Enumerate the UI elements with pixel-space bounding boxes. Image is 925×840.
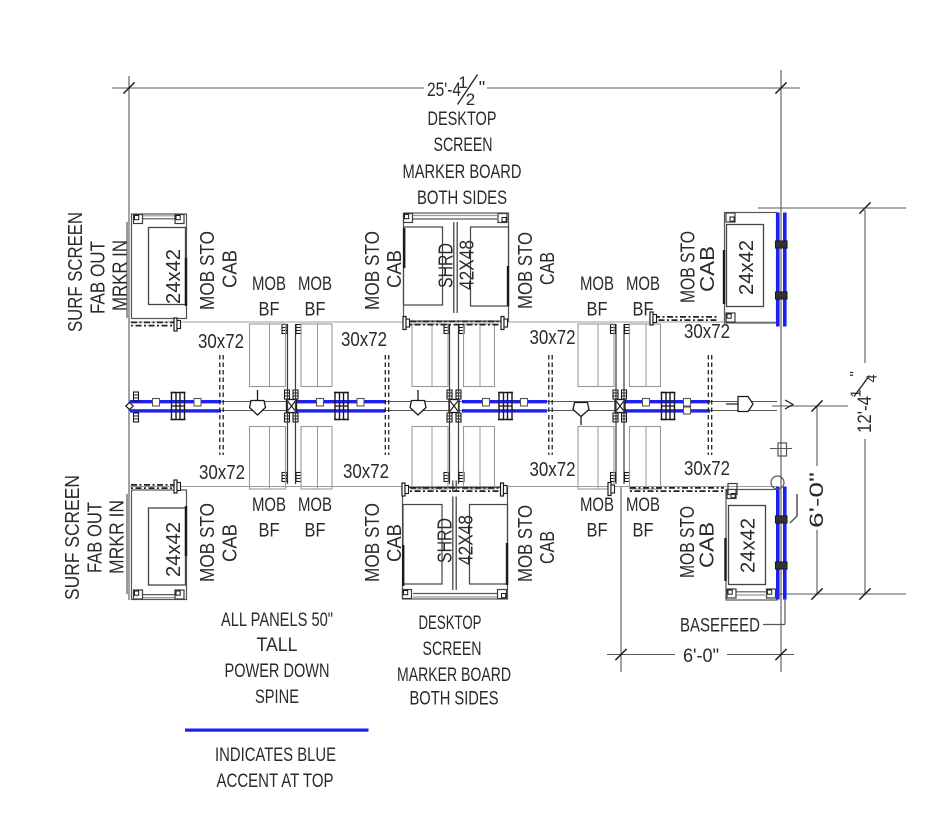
svg-text:2: 2 [466,90,475,109]
pedestal lower 3 [412,427,448,490]
bottom-right blue tick B [776,562,788,569]
junction hatch pair 2 [447,390,452,399]
bottom-center dash-dot end connector B [501,483,504,496]
blue accent spine segment 3 lower [462,409,547,412]
svg-text:CAB: CAB [384,524,406,562]
blue accent spine segment 3 upper [462,400,547,403]
svg-text:SCREEN: SCREEN [423,638,482,660]
svg-text:INDICATES BLUE: INDICATES BLUE [215,744,336,766]
panel connector C3 [499,393,504,420]
svg-text:MRKR IN: MRKR IN [107,500,129,574]
power pole P2 [410,401,426,416]
divider panel right cluster [615,324,617,484]
right dim helper line bottom [770,593,906,595]
tick 6ft-bottom right [775,649,786,660]
spine junction X1 [287,400,297,413]
svg-text:POWER DOWN: POWER DOWN [225,660,330,682]
spine gray connector e [483,399,490,407]
svg-text:SURF SCREEN: SURF SCREEN [62,475,84,600]
pedestal upper 2 [301,324,332,387]
right dim helper line mid [772,405,848,407]
svg-text:30x72: 30x72 [684,458,730,480]
svg-text:SURF SCREEN: SURF SCREEN [65,212,87,332]
blue accent spine segment 1 lower [130,409,221,412]
top-center desk right [471,227,509,306]
top-right corner square B [726,313,735,322]
junction hatch pair 3 [613,390,618,399]
junction hatch pair 1 [285,390,290,399]
dimension extension line right [780,70,782,672]
svg-text:MOB STO: MOB STO [362,231,384,310]
spine gray connector b [194,399,201,407]
desk screen dashed 4 [707,355,709,455]
top-center corner square A [404,214,413,223]
svg-text:30x72: 30x72 [199,462,245,484]
bottom-center corner square B [498,590,507,599]
svg-text:24x42: 24x42 [738,518,760,573]
bottom-center corner square A [403,590,412,599]
top-left desk 24x42 [149,228,186,305]
upper row boundary line [129,321,777,323]
svg-text:12'-4: 12'-4 [855,396,876,433]
svg-text:6'-0": 6'-0" [683,646,719,667]
top-right markerboard blue line B [783,213,787,327]
divider hatch bottom left [282,473,287,482]
spine gray connector c [317,399,324,407]
bottom-right markerboard blue line B [783,487,787,600]
spine gray connector f [521,399,528,407]
bottom-center dark edge left [402,545,404,586]
top-center dash-dot end connector A [403,317,406,330]
svg-text:MOB STO: MOB STO [362,503,384,582]
svg-text:6'-0": 6'-0" [807,472,828,528]
top dimension line 25ft [112,87,424,89]
divider panel left cluster [287,324,289,484]
svg-text:24x42: 24x42 [163,249,185,304]
svg-text:25'-4: 25'-4 [427,80,461,101]
bottom-left corner square A [134,590,143,599]
bottom-right markerboard band [736,591,768,593]
svg-text:ALL PANELS 50": ALL PANELS 50" [221,609,333,631]
top-left surf screen double line [126,222,128,318]
right wall small rect [778,443,787,456]
pedestal upper 3 [412,324,448,387]
svg-text:CAB: CAB [537,252,559,285]
bottom-center desk left [403,505,442,585]
top-right desk 24x42 [727,225,764,307]
svg-text:FAB OUT: FAB OUT [88,241,110,314]
svg-text:MOB: MOB [626,494,660,516]
panel connector C4 [662,393,667,420]
top-center corner square B [498,214,507,223]
top-center shared block outline [404,213,509,321]
panel connector C2 [335,393,340,420]
bottom-left desk 24x42 [149,508,186,585]
tick top-right [775,82,786,93]
divider panel center cluster [449,324,451,484]
spine panel top edge [129,401,777,403]
pedestal lower 1 [250,427,286,490]
bottom dimension line 6'-0" [607,654,675,656]
svg-text:MRKR IN: MRKR IN [110,240,132,311]
svg-text:MOB: MOB [298,494,332,516]
top-right corner square A [726,213,735,222]
bottom-right corner square B [727,589,736,598]
top-center markerboard band [413,215,497,217]
pedestal upper 4 [464,324,495,387]
pedestal lower 4 [464,427,495,490]
svg-text:24x42: 24x42 [163,522,185,577]
bottom-left corner square B [175,590,184,599]
spine left end node [126,403,133,410]
svg-text:SPINE: SPINE [255,686,299,708]
bottom-center markerboard band [413,593,497,595]
bottom-right markerboard blue line A [776,487,780,600]
svg-text:SHRD: SHRD [435,518,457,563]
top-right blue tick B [776,292,788,299]
svg-text:MOB: MOB [252,273,286,295]
divider hatch top center [444,325,449,334]
top-right blue tick A [776,241,788,248]
tick 6ft-right top [811,400,822,411]
svg-text:MOB STO: MOB STO [197,503,219,582]
svg-text:MOB: MOB [252,494,286,516]
svg-text:BF: BF [633,520,654,542]
svg-text:30x72: 30x72 [530,459,576,481]
svg-text:DESKTOP: DESKTOP [428,108,497,130]
blue accent spine segment 4 upper [622,400,710,403]
bottom-right corner square C [767,589,776,598]
pedestal upper 6 [630,324,661,387]
svg-text:BF: BF [587,299,608,321]
tick 12ft bottom [859,588,870,599]
svg-text:BOTH SIDES: BOTH SIDES [417,187,507,209]
bottom-right corner square A [727,490,736,499]
top-right desk dark edge [723,250,725,304]
top-left dash-dot panel [131,321,176,323]
top-right storage block outline [725,213,777,324]
top-right dash-dot end connector [650,312,653,325]
svg-text:BF: BF [305,520,326,542]
svg-text:CAB: CAB [384,250,406,288]
power pole P3 [573,403,589,417]
svg-text:SHRD: SHRD [436,243,458,288]
panel connector C1 [172,393,177,420]
svg-text:CAB: CAB [537,531,559,564]
spine junction X3 [615,400,625,413]
right dim helper line top [758,207,906,209]
svg-text:MARKER BOARD: MARKER BOARD [397,664,511,686]
svg-text:CAB: CAB [220,250,242,288]
top-left markerboard band [140,215,178,217]
svg-text:BF: BF [259,299,280,321]
spine gray connector h [684,399,691,407]
bottom-center desk right [470,505,508,585]
top-center divider [453,222,455,313]
pedestal lower 5 [578,427,614,490]
bottom-center dark edge right [506,543,508,585]
svg-text:24x42: 24x42 [736,240,758,295]
svg-text:1: 1 [849,389,865,397]
right wall circle node [771,476,784,489]
svg-text:30x72: 30x72 [530,327,576,349]
pedestal upper 5 [578,324,614,387]
right wall hook [790,494,797,523]
blue accent spine segment 1 upper [130,400,221,403]
bottom-left storage block outline [132,490,187,600]
desk screen dashed 2 [384,355,386,455]
bottom-left dash-dot panel [131,484,176,486]
bottom-center shared block outline [403,488,508,600]
svg-text:FAB OUT: FAB OUT [85,502,107,573]
bottom-left dash-dot end connector [174,480,177,493]
blue accent spine segment 4 lower [622,409,710,412]
spine gray connector a [153,399,160,407]
tick 12ft top [859,202,870,213]
desk screen dashed 3 [548,355,550,455]
bottom-left desk dark edge [185,506,187,556]
svg-text:CAB: CAB [220,524,242,562]
power pole P1 [250,401,266,416]
svg-text:DESKTOP: DESKTOP [419,612,482,634]
svg-text:ACCENT AT TOP: ACCENT AT TOP [217,770,334,792]
svg-text:MOB STO: MOB STO [515,232,537,309]
bottom-right blue tick A [776,516,788,523]
tick top-left [123,82,134,93]
top-left storage block outline [132,214,187,319]
tick 6ft-right bottom [811,588,822,599]
bottom-right desk 24x42 [729,506,766,585]
bottom-center divider stub top [452,481,454,493]
svg-text:MARKER BOARD: MARKER BOARD [403,161,522,183]
svg-text:30x72: 30x72 [198,331,244,353]
pedestal upper 1 [250,324,286,387]
pedestal lower 2 [301,427,332,490]
spine gray connector g [643,399,650,407]
top-center dash-dot end connector B [501,317,504,330]
dimension line 6'-0" right [816,406,818,466]
bottom-center dash-dot end connector A [402,483,405,496]
top-left corner square A [134,215,143,224]
svg-text:30x72: 30x72 [684,321,730,343]
svg-text:BF: BF [305,299,326,321]
spine right end arrow [785,400,793,409]
svg-text:MOB: MOB [580,494,614,516]
spine junction X2 [449,400,459,413]
bottom-right dash-dot small rect [728,484,737,495]
bottom-right dash-dot end connector [608,483,611,496]
bottom-left surf screen double line [126,494,128,594]
svg-text:CAB: CAB [697,246,719,292]
divider hatch top right [611,325,616,334]
svg-text:30x72: 30x72 [343,461,389,483]
svg-text:4: 4 [865,374,881,382]
svg-text:": " [847,371,864,376]
top-left dash-dot end connector [174,318,177,331]
top-right dash-dot panel [654,316,719,318]
top-center dash-dot panel [410,320,502,322]
dimension extension line bottom 6ft [620,487,622,672]
svg-text:BF: BF [633,299,654,321]
svg-text:BASEFEED: BASEFEED [680,615,760,637]
dimension line 12'-4 1/4" [864,210,866,363]
desk screen dashed 1 [219,355,221,455]
svg-text:BF: BF [259,520,280,542]
legend blue accent line [185,729,369,732]
spine gray connector d [357,399,364,407]
svg-text:": " [479,78,485,98]
top-left desk dark edge [185,258,187,306]
svg-text:MOB: MOB [298,273,332,295]
top-center dark edge right [507,266,509,306]
bottom-right storage block outline [726,490,777,601]
svg-text:42X48: 42X48 [457,240,479,290]
svg-text:MOB STO: MOB STO [197,231,219,310]
bottom-right dash-dot panel [630,487,724,489]
divider hatch bottom center [444,473,449,482]
top-center desk left [404,227,443,305]
bottom-left markerboard band [140,594,178,596]
svg-text:MOB: MOB [580,273,614,295]
top-left corner square B [175,215,184,224]
basefeed pentagon P4 [738,397,753,412]
top-center dark edge left [403,228,405,268]
svg-text:42X48: 42X48 [456,515,478,565]
svg-text:BF: BF [587,520,608,542]
divider hatch top left [282,325,287,334]
lower row boundary line [129,486,777,488]
svg-text:TALL: TALL [257,634,298,656]
spine end connector pair left [134,392,139,401]
bottom-center dash-dot panel [410,487,501,489]
pedestal lower 6 [630,427,661,490]
bottom-right desk dark edge [724,538,726,581]
dimension extension line left [128,76,130,600]
svg-text:BOTH SIDES: BOTH SIDES [410,688,499,710]
basefeed leader line [763,624,785,626]
svg-text:MOB STO: MOB STO [515,505,537,582]
divider hatch bottom right [611,473,616,482]
top-right markerboard blue line A [776,213,780,327]
tick 6ft-bottom left [615,649,626,660]
bottom-center divider [452,497,454,591]
spine panel bottom edge [129,410,777,412]
svg-text:30x72: 30x72 [341,329,387,351]
svg-text:CAB: CAB [697,522,719,568]
svg-text:SCREEN: SCREEN [434,134,493,156]
blue accent spine segment 2 lower [296,409,385,412]
blue accent spine segment 2 upper [296,400,385,403]
svg-text:MOB: MOB [626,273,660,295]
